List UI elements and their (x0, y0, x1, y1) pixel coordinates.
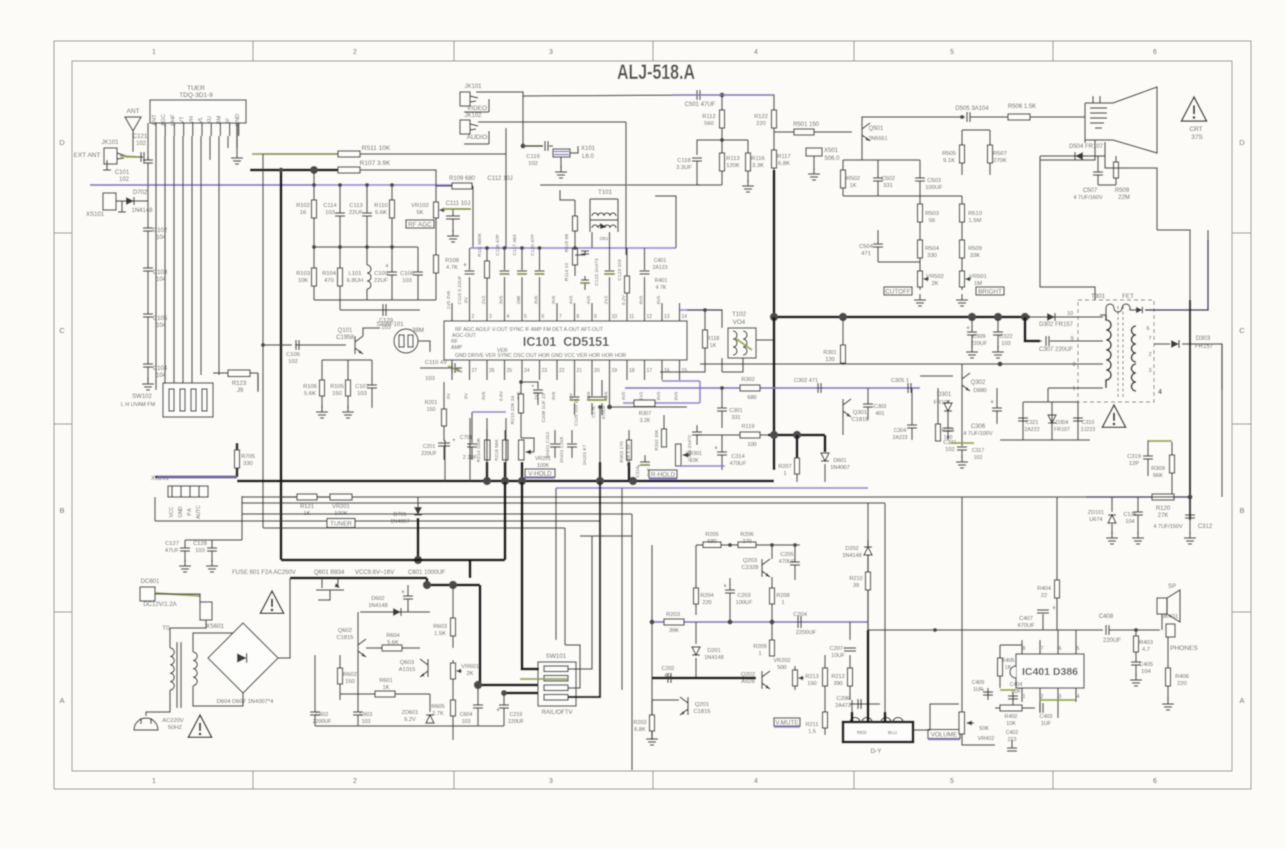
svg-text:3: 3 (489, 314, 492, 320)
svg-text:103: 103 (357, 391, 367, 397)
capacitor C701 2.2UF (471, 412, 473, 443)
svg-text:3V6: 3V6 (534, 295, 540, 304)
svg-text:2A223: 2A223 (892, 435, 907, 441)
svg-text:D201: D201 (707, 648, 720, 654)
svg-text:1: 1 (152, 49, 156, 56)
transistor Q203 C2328 (762, 559, 770, 577)
resistor R705 330 (236, 443, 238, 477)
junction dots various (279, 168, 284, 173)
wire ic401 pins down (1039, 702, 1041, 712)
svg-text:4V5: 4V5 (621, 391, 627, 400)
svg-text:220UF: 220UF (508, 719, 525, 725)
svg-text:Q603: Q603 (400, 660, 414, 666)
purple right leg (662, 381, 700, 403)
svg-text:560: 560 (704, 121, 714, 127)
svg-text:22UF: 22UF (349, 210, 364, 216)
transistor Q202 A928 (762, 671, 770, 689)
svg-text:C601 1000UF: C601 1000UF (408, 570, 446, 576)
svg-text:C408: C408 (1099, 614, 1114, 620)
resistor R120 27K (1152, 494, 1174, 500)
svg-text:D51: D51 (600, 236, 609, 242)
svg-text:R122: R122 (754, 114, 768, 120)
svg-text:1K: 1K (383, 685, 390, 691)
svg-text:R509: R509 (1115, 188, 1130, 194)
capacitor C507 and R509 (1097, 156, 1099, 172)
resistor R212 390 (849, 655, 851, 700)
svg-text:R506 1.5K: R506 1.5K (1008, 104, 1036, 110)
svg-text:1M: 1M (974, 281, 982, 287)
svg-text:C114: C114 (323, 203, 337, 209)
svg-text:C501 47UF: C501 47UF (685, 102, 716, 108)
purple row y622 (652, 621, 868, 623)
green trace sw101 (520, 678, 568, 680)
svg-text:1: 1 (152, 778, 156, 785)
resistor R112 560 (721, 95, 723, 140)
svg-text:X101: X101 (581, 146, 596, 152)
FBT top winding and diode (1106, 304, 1136, 315)
resistor R123 39 (213, 372, 258, 374)
capacitor C201 220UF (438, 443, 450, 446)
wire verticals ic to bus (469, 418, 471, 482)
svg-text:C303: C303 (874, 404, 887, 410)
wire fbt pin1 (1048, 387, 1103, 389)
wire ic401 pin6 up to r404 (1057, 630, 1059, 640)
svg-text:2: 2 (472, 314, 475, 320)
pot VR202 500 (793, 666, 798, 690)
wire q501 collector top (862, 117, 965, 123)
svg-text:R215 22K 24: R215 22K 24 (510, 395, 516, 424)
connector JK101 ext ant (104, 148, 117, 164)
svg-text:D: D (1239, 138, 1245, 147)
svg-text:C1815: C1815 (336, 635, 353, 641)
svg-text:47UF: 47UF (165, 548, 180, 554)
svg-text:8: 8 (577, 314, 580, 320)
svg-text:1V2: 1V2 (639, 391, 645, 400)
resistor R506 1.5K (1008, 114, 1030, 120)
wire tuner agc purple row (90, 184, 313, 186)
caps under FBT (1022, 402, 1024, 440)
svg-text:Q201: Q201 (695, 702, 709, 708)
svg-text:B: B (1239, 506, 1244, 515)
wire bundle drop x632 (631, 514, 633, 770)
transistor Q602 C1815 (358, 639, 366, 657)
FBT core dashed (1118, 306, 1123, 398)
ground row psu (315, 725, 504, 727)
svg-text:6.8K: 6.8K (634, 727, 646, 733)
svg-text:A: A (1239, 696, 1244, 705)
wire r205 row (696, 544, 800, 546)
svg-text:C116 47P: C116 47P (495, 234, 501, 255)
bold rail step (427, 578, 480, 585)
svg-text:R402: R402 (1005, 714, 1018, 720)
wire top video row (693, 94, 722, 96)
svg-text:TUNER: TUNER (330, 521, 352, 528)
wire q501 base row (774, 131, 852, 133)
svg-text:1K: 1K (1005, 665, 1012, 671)
capacitor C313 mid (554, 430, 556, 443)
svg-text:102: 102 (288, 359, 298, 365)
svg-text:+: + (496, 707, 500, 714)
lower junction row (314, 246, 418, 248)
svg-text:R107 3.9K: R107 3.9K (360, 160, 391, 167)
svg-text:223: 223 (1008, 737, 1017, 743)
svg-text:5.6K: 5.6K (304, 391, 316, 397)
svg-text:3: 3 (1148, 368, 1151, 374)
border column ticks bottom (252, 771, 254, 789)
svg-text:0V: 0V (446, 392, 452, 399)
svg-text:680: 680 (707, 539, 716, 545)
svg-text:C203: C203 (737, 593, 750, 599)
svg-text:C321: C321 (1026, 420, 1039, 426)
svg-text:4: 4 (1158, 389, 1162, 396)
resistor R405 1K (999, 645, 1001, 688)
svg-text:BRIGHT: BRIGHT (978, 289, 1002, 296)
svg-text:+: + (531, 384, 535, 390)
resistor R403 4.7 (1135, 630, 1137, 652)
svg-text:VR102: VR102 (411, 203, 429, 209)
transistor Q101 C1958 (355, 336, 363, 354)
svg-text:C305 1: C305 1 (891, 378, 909, 384)
svg-text:19: 19 (612, 368, 618, 374)
wire q301 emitter down (842, 417, 844, 435)
resistor R102 16 (313, 170, 315, 247)
svg-text:C206: C206 (837, 696, 850, 702)
svg-text:VL: VL (198, 117, 204, 124)
ground tuner gnd pin (236, 123, 238, 152)
resistor R205 680 (703, 542, 721, 548)
switch SW101 block (538, 662, 576, 706)
wire audio feed (478, 121, 626, 123)
svg-text:104: 104 (156, 373, 167, 379)
svg-text:Q602: Q602 (338, 628, 352, 634)
svg-text:9.1K: 9.1K (943, 158, 955, 164)
capacitor C305 10UF series (908, 383, 911, 393)
svg-text:R204: R204 (700, 593, 713, 599)
svg-text:ANT: ANT (127, 108, 140, 115)
svg-text:10: 10 (1067, 311, 1073, 317)
svg-text:Q203: Q203 (743, 558, 757, 564)
svg-text:5: 5 (524, 314, 527, 320)
svg-text:R202: R202 (633, 720, 646, 726)
svg-text:R301: R301 (823, 350, 836, 356)
wire ic top right to R511 (505, 154, 507, 248)
svg-text:B: B (59, 506, 64, 515)
svg-text:C301: C301 (729, 408, 742, 414)
capacitor C118 3.3UF (697, 140, 722, 155)
wire T0 sec to bridge (193, 623, 243, 640)
capacitor C602 2200UF (314, 655, 316, 712)
svg-text:ZD101: ZD101 (1088, 510, 1105, 516)
wire vertical x263 (262, 154, 264, 487)
svg-text:C112 10J: C112 10J (487, 176, 512, 182)
warning triangle AC (188, 715, 211, 737)
svg-text:R108: R108 (445, 258, 459, 264)
capacitor C402 223 (1011, 740, 1013, 748)
capacitor C202 4.7 series (668, 673, 671, 683)
svg-text:330: 330 (243, 461, 253, 467)
svg-text:220: 220 (1177, 681, 1187, 687)
svg-text:270: 270 (742, 539, 751, 545)
svg-text:R502: R502 (846, 176, 860, 182)
purple trace ic right top (680, 309, 722, 311)
svg-text:R208: R208 (776, 593, 789, 599)
svg-text:Q601 B834: Q601 B834 (314, 570, 345, 576)
resistor R115 680 column (574, 200, 576, 217)
svg-text:IF: IF (226, 117, 232, 123)
svg-text:C312: C312 (1198, 524, 1213, 530)
svg-text:+: + (723, 583, 727, 590)
svg-text:R111 680K: R111 680K (477, 232, 483, 256)
svg-text:6.8UH: 6.8UH (347, 278, 363, 284)
svg-text:C119: C119 (526, 154, 539, 160)
svg-text:10K: 10K (298, 278, 308, 284)
capacitor C316 1UF green (644, 455, 646, 462)
IC101 top pins (451, 303, 453, 321)
purple below ic y412 (472, 411, 506, 413)
svg-text:C117 483: C117 483 (512, 234, 518, 255)
svg-text:C104: C104 (153, 366, 168, 372)
boxlabel RF AGC (406, 220, 434, 229)
svg-text:0.6V: 0.6V (499, 390, 505, 401)
svg-text:27K: 27K (1158, 513, 1169, 519)
connector JK101 VIDEO (460, 92, 470, 106)
svg-text:R309: R309 (1151, 466, 1165, 472)
resistor R207 1 (796, 435, 799, 458)
svg-text:33K: 33K (970, 253, 980, 259)
svg-text:T101: T101 (598, 189, 613, 196)
svg-text:5.6K: 5.6K (387, 640, 399, 646)
svg-text:C108: C108 (400, 271, 414, 277)
resistor R103 10K (313, 247, 315, 300)
IC401 pins (1021, 640, 1023, 654)
svg-text:R-HOLD: R-HOLD (651, 472, 676, 479)
svg-text:C403: C403 (1040, 714, 1053, 720)
svg-text:T102: T102 (732, 311, 747, 318)
svg-text:VR201: VR201 (332, 504, 350, 510)
svg-text:C309: C309 (972, 334, 985, 340)
connector XS601 (200, 602, 212, 620)
svg-text:26: 26 (489, 368, 495, 374)
svg-text:1: 1 (1023, 694, 1026, 700)
border row ticks left (54, 232, 72, 234)
boxlabel V.MUTE (774, 718, 800, 727)
capacitor C303 40? (867, 388, 869, 404)
capacitor C603 103 (357, 657, 359, 712)
svg-text:C125 103 21: C125 103 21 (574, 398, 580, 426)
svg-text:104: 104 (1125, 519, 1134, 525)
resistor R204 220 (695, 545, 697, 615)
svg-text:2: 2 (1148, 352, 1151, 358)
svg-text:R207: R207 (778, 464, 791, 470)
resistor R215 22K (520, 382, 522, 395)
transformer T0 windings (169, 628, 171, 648)
svg-text:102: 102 (945, 447, 955, 453)
junction R112 bottom (720, 138, 724, 142)
svg-text:220UF: 220UF (971, 341, 988, 347)
svg-text:C115 0.22UF: C115 0.22UF (457, 276, 463, 305)
resistor R603 1.5K (452, 585, 454, 648)
svg-text:1: 1 (758, 651, 761, 657)
svg-text:+: + (966, 325, 970, 332)
svg-text:+: + (463, 262, 467, 269)
resistor R509 22M vertical (1115, 156, 1117, 185)
svg-text:R120: R120 (1156, 506, 1171, 512)
svg-text:4 7UF/160V: 4 7UF/160V (1073, 195, 1103, 201)
svg-text:R210: R210 (849, 576, 862, 582)
wire y388 row (625, 387, 920, 389)
svg-text:TDQ-3D1-9: TDQ-3D1-9 (179, 92, 213, 99)
svg-text:FET: FET (1122, 293, 1134, 300)
svg-text:C1?6: C1?6 (591, 406, 597, 418)
svg-text:R403: R403 (1139, 640, 1153, 646)
resistor R113 120K (721, 140, 723, 185)
vertical bus x622 (621, 488, 623, 690)
svg-text:C503: C503 (927, 178, 941, 184)
diode D303 FR157 (1154, 343, 1170, 345)
svg-text:A: A (59, 696, 64, 705)
svg-text:JK102: JK102 (464, 113, 482, 119)
capacitor C209 1UF (521, 382, 538, 389)
svg-text:GND: GND (178, 506, 184, 518)
svg-text:4.7K: 4.7K (446, 265, 458, 271)
connector XS101 (103, 193, 116, 210)
svg-text:+: + (1052, 605, 1056, 612)
svg-text:1.5M: 1.5M (969, 218, 982, 224)
capacitor C102 104 (147, 185, 149, 228)
capacitor C206 2A473 series (850, 703, 880, 705)
capacitor C219 220UF (503, 693, 505, 705)
svg-text:D880: D880 (973, 388, 986, 394)
svg-text:50HZ: 50HZ (168, 725, 183, 731)
svg-text:470UF: 470UF (779, 559, 796, 565)
capacitor C105 104 (143, 314, 153, 317)
svg-text:J9: J9 (237, 388, 244, 394)
resistor R504 330 (919, 232, 921, 268)
wire d504 to fbt staircase (1040, 156, 1095, 300)
svg-text:VR601: VR601 (461, 664, 479, 670)
svg-text:1K: 1K (710, 343, 717, 349)
bold wires to SW101 (480, 585, 539, 685)
wire t102 bottom loop (660, 360, 705, 372)
tuner block TU101 TDQ-3D1-9 (150, 100, 246, 123)
capacitor C101 102 series (126, 156, 143, 158)
svg-text:8: 8 (1023, 646, 1026, 652)
svg-text:2K: 2K (931, 281, 938, 287)
svg-text:L6.0: L6.0 (582, 154, 594, 160)
svg-text:R507: R507 (993, 151, 1007, 157)
resistor R301 120 (842, 317, 844, 365)
svg-text:1N4148: 1N4148 (131, 208, 153, 214)
resistor R111 680K (486, 248, 488, 303)
svg-text:+: + (452, 437, 456, 444)
svg-text:24: 24 (524, 368, 530, 374)
svg-text:4V5: 4V5 (569, 295, 575, 304)
svg-text:22: 22 (1041, 593, 1047, 599)
svg-text:2N5551: 2N5551 (868, 136, 887, 142)
svg-text:C109: C109 (374, 271, 388, 277)
resistor R309 56K (1171, 442, 1173, 497)
svg-text:56K: 56K (1153, 473, 1163, 479)
capacitor C302 471 series (818, 383, 821, 393)
capacitor C304 2A223 (911, 388, 913, 425)
resistor R106 5.6K (321, 360, 323, 408)
svg-text:2A222: 2A222 (1024, 427, 1039, 433)
svg-text:10K: 10K (1006, 721, 1016, 727)
wire bridge out (278, 578, 290, 658)
svg-text:XS101: XS101 (86, 212, 105, 218)
svg-text:C123 103: C123 103 (617, 259, 623, 280)
green trace dc in (155, 593, 200, 596)
svg-text:470: 470 (324, 278, 334, 284)
svg-text:103: 103 (362, 719, 371, 725)
svg-text:2K: 2K (466, 671, 473, 677)
svg-text:V.MUTE: V.MUTE (775, 720, 798, 727)
svg-text:ALJ-518.A: ALJ-518.A (617, 61, 695, 84)
capacitor C315 2A472 (696, 425, 698, 432)
connector DC601 jack (140, 587, 155, 601)
wire sw101 top connector (580, 535, 632, 537)
svg-text:4: 4 (1077, 694, 1080, 700)
svg-text:102: 102 (974, 455, 983, 461)
svg-text:0V: 0V (464, 296, 470, 303)
svg-text:C604: C604 (460, 712, 473, 718)
wire video to right (476, 92, 693, 96)
capacitor C108 103 (417, 247, 419, 272)
resistor R211 1.5 (824, 700, 826, 735)
svg-text:R604: R604 (386, 633, 399, 639)
svg-text:R115 68: R115 68 (564, 234, 570, 252)
svg-text:6V5: 6V5 (674, 391, 680, 400)
transistor Q603 A1015 (420, 659, 428, 677)
resistor R108 4.7K (435, 240, 437, 300)
resistor R303 2.2 col (628, 430, 630, 440)
svg-text:Q501: Q501 (869, 126, 884, 132)
svg-text:10UF: 10UF (831, 653, 845, 659)
svg-text:5: 5 (1077, 646, 1080, 652)
svg-text:56: 56 (929, 218, 935, 224)
resistor R119 100 (740, 432, 760, 438)
svg-text:6V5: 6V5 (639, 295, 645, 304)
wire t101 area top (540, 184, 626, 186)
wire dy right steps (913, 704, 959, 730)
svg-text:3.3UF: 3.3UF (676, 165, 692, 171)
svg-text:14: 14 (682, 314, 688, 320)
svg-text:+: + (714, 445, 718, 452)
svg-text:C502: C502 (881, 176, 895, 182)
svg-text:6: 6 (1146, 326, 1149, 332)
junction dot R107 (310, 166, 318, 174)
svg-text:401: 401 (876, 411, 885, 417)
svg-text:TUER: TUER (187, 85, 205, 92)
svg-text:4.7: 4.7 (1142, 647, 1150, 653)
border row ticks right (1232, 232, 1251, 234)
connector JK102 AUDIO (460, 120, 470, 134)
antenna ANT symbol (125, 117, 141, 152)
svg-text:29B: 29B (516, 296, 522, 305)
svg-text:5: 5 (950, 778, 954, 785)
svg-text:220: 220 (756, 121, 766, 127)
wire audio row (627, 184, 700, 186)
boxlabel CUTOFF (884, 287, 912, 296)
diode D302 FR157 (1030, 316, 1103, 318)
FBT primary coil (1106, 315, 1111, 388)
wire x436 vr102 bottom (435, 220, 437, 240)
svg-text:12P: 12P (1129, 461, 1139, 467)
diode ZD101 U674 (1111, 497, 1113, 512)
svg-text:2V2: 2V2 (604, 295, 610, 304)
svg-text:R121: R121 (300, 504, 314, 510)
diode D601 1N4007 (824, 435, 827, 452)
